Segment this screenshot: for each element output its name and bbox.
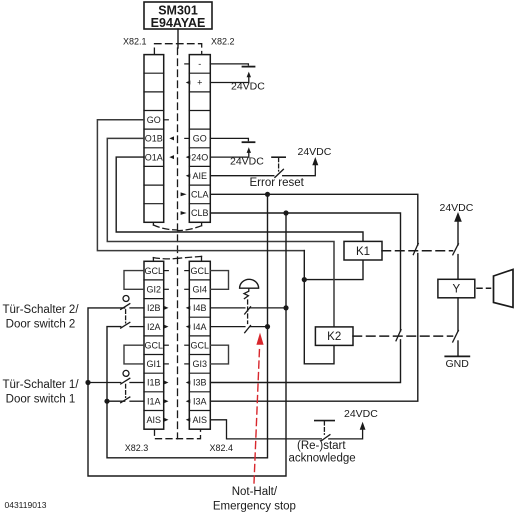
wire GO (X82.2) pin to 0V bar	[210, 138, 248, 140]
restart pushbutton: cap bar	[315, 420, 334, 422]
svg-text:GI4: GI4	[193, 285, 208, 295]
wire K2 muting contact to GND	[457, 341, 459, 356]
wire 24VDC to K1 muting contact	[457, 221, 459, 245]
wire I1B via door switch 1	[88, 382, 144, 384]
pin direction arrow I1A (in, right)	[164, 399, 169, 403]
svg-text:K2: K2	[327, 331, 341, 343]
wire I1A via door switch 1	[107, 400, 144, 402]
door switch 2: contact blade I2B	[121, 304, 130, 310]
svg-text:X82.2: X82.2	[211, 37, 235, 47]
pin direction arrow CLB (out, right)	[181, 211, 187, 215]
svg-text:GI2: GI2	[147, 285, 162, 295]
pin direction arrow + (in, left)	[186, 81, 191, 85]
svg-text:24VDC: 24VDC	[440, 202, 474, 214]
label Not-Halt / Emergency stop	[213, 486, 296, 512]
pin direction arrow AIS X82.4 (in, left)	[186, 418, 191, 422]
pin direction arrow I2B (in, right)	[164, 306, 169, 310]
svg-text:Tür-Schalter 1/: Tür-Schalter 1/	[2, 379, 79, 391]
24VDC arrow (error reset)	[312, 157, 318, 165]
terminal strip X82.1	[144, 55, 168, 223]
wire I2B segment after door switch 2	[130, 307, 144, 309]
wire GO chain down to relay coil returns	[304, 251, 334, 364]
svg-text:AIS: AIS	[147, 415, 162, 425]
wire O1A to K1 coil	[116, 157, 363, 241]
wire SM301 box to module boundary	[177, 29, 179, 48]
pin direction arrow I3A (in, left)	[186, 399, 191, 403]
terminal strip X82.2	[185, 55, 211, 223]
module boundary dashed top bracket	[154, 44, 201, 55]
svg-text:I2B: I2B	[147, 303, 161, 313]
svg-text:GCL: GCL	[145, 340, 164, 350]
wire I2A segment after door switch 2	[130, 326, 144, 328]
svg-text:I3A: I3A	[193, 396, 207, 406]
wire O1B to K2 coil	[107, 138, 334, 327]
door switch 2: gang link dashed	[125, 310, 127, 323]
svg-text:24VDC: 24VDC	[230, 156, 264, 168]
module label box U1 SM301 / E94AYAE	[144, 2, 212, 30]
K2 checking contact blade (CLB line)	[396, 330, 401, 341]
K2 muting contact blade	[453, 330, 459, 342]
label Tuer-Schalter 2 / Door switch 2	[2, 304, 79, 330]
wire I4B from emergency stop contact	[210, 307, 286, 309]
svg-text:GI1: GI1	[147, 359, 162, 369]
svg-text:24VDC: 24VDC	[298, 146, 332, 158]
jumper GCL-GI2 (X82.3 left)	[124, 271, 144, 290]
pin direction arrow O1A (out, left)	[169, 155, 174, 159]
svg-text:Not-Halt/: Not-Halt/	[232, 486, 278, 498]
svg-text:-: -	[198, 59, 201, 69]
svg-text:GI3: GI3	[193, 359, 208, 369]
wire I3A from K1 checking contact	[210, 254, 417, 402]
svg-text:I3B: I3B	[193, 378, 207, 388]
wire "+" pin to 24VDC arrow	[210, 77, 249, 83]
wire error reset to 24VDC arrow	[283, 165, 316, 176]
wire AIS (X82.4) to restart acknowledge contact	[210, 420, 321, 439]
svg-text:GCL: GCL	[191, 266, 210, 276]
pushbutton error reset: actuator dashed stem	[278, 158, 280, 171]
svg-text:acknowledge: acknowledge	[289, 453, 356, 465]
svg-text:+: +	[197, 78, 202, 88]
pin direction arrow I4B (in, left)	[186, 306, 191, 310]
terminal strip X82.4	[185, 261, 211, 429]
K1 mechanical linkage (dashed)	[382, 250, 453, 252]
24VDC arrow (muting supply)	[454, 212, 462, 222]
svg-text:X82.1: X82.1	[123, 37, 147, 47]
svg-text:Tür-Schalter 2/: Tür-Schalter 2/	[2, 304, 79, 316]
svg-text:CLB: CLB	[191, 208, 209, 218]
wire GO (X82.1) feed loop	[97, 120, 304, 251]
svg-text:O1B: O1B	[145, 134, 163, 144]
svg-text:I4A: I4A	[193, 322, 207, 332]
wire CLB to K2 feedback contact	[210, 213, 400, 331]
0V potential bar (GO supply)	[243, 141, 255, 143]
restart pushbutton: contact blade	[321, 435, 330, 441]
emergency stop contact blade I4A	[245, 326, 251, 333]
wire 24O pin to 24VDC arrow	[210, 153, 249, 158]
svg-text:(Re-)start: (Re-)start	[297, 440, 346, 452]
module boundary dashed bottom bracket	[155, 429, 201, 439]
door switch 2: contact blade I2A	[121, 322, 130, 328]
svg-text:043119013: 043119013	[5, 500, 47, 510]
emergency stop button: actuator dashed link	[247, 300, 249, 324]
K1 muting contact blade	[453, 244, 459, 255]
module boundary stubs and wiggles between connector groups	[153, 222, 201, 261]
relay coil K1	[344, 241, 382, 260]
jumper GCL-GI1 (X82.3 left)	[124, 345, 144, 364]
svg-text:AIS: AIS	[193, 415, 208, 425]
wire CLB chain down across bottom and up to door switch 2 (I2B)	[88, 213, 286, 476]
wire AIE input (error reset)	[210, 175, 273, 177]
svg-text:O1A: O1A	[145, 152, 163, 162]
label (Re-)start acknowledge	[289, 440, 356, 465]
junction I1B tap	[85, 380, 90, 385]
svg-text:X82.4: X82.4	[210, 443, 234, 453]
24VDC arrow (24O pin)	[247, 147, 251, 153]
wire K1 muting contact to Y	[457, 255, 459, 280]
door switch 1: contact blade I1B	[121, 378, 130, 384]
svg-text:Door switch 2: Door switch 2	[6, 318, 76, 330]
24VDC arrow (restart)	[360, 422, 366, 430]
pin direction arrow 24O (in, left)	[186, 155, 191, 159]
door switch 1: circle head	[123, 370, 129, 376]
24VDC arrow (+ pin)	[247, 72, 251, 78]
wire CLA to K1 feedback contact	[210, 194, 417, 245]
junction I4A tap	[265, 324, 270, 329]
pin direction arrow I2A (in, right)	[164, 325, 169, 329]
svg-text:E94AYAE: E94AYAE	[151, 16, 206, 30]
svg-text:24VDC: 24VDC	[231, 81, 265, 93]
K2 mechanical linkage (dashed)	[353, 335, 453, 337]
terminal strip X82.3	[144, 261, 168, 429]
emergency stop pointer: red dashed arrow	[254, 333, 264, 483]
svg-text:GO: GO	[193, 134, 207, 144]
junction GO / K1 return	[302, 277, 307, 282]
wire restart contact to 24VDC arrow	[329, 430, 363, 439]
pin direction arrow AIE (in, left)	[186, 174, 191, 178]
svg-text:GO: GO	[147, 115, 161, 125]
door switch 1: gang link dashed	[125, 384, 127, 397]
svg-text:K1: K1	[356, 246, 370, 258]
svg-text:AIE: AIE	[193, 171, 208, 181]
module boundary dashed centerline	[177, 48, 179, 439]
door switch 2: circle head	[123, 296, 129, 302]
pin direction arrow I3B (in, left)	[186, 381, 191, 385]
emergency stop button: stem and latch	[244, 288, 249, 298]
wire K1 coil return	[304, 260, 363, 280]
svg-text:I2A: I2A	[147, 322, 161, 332]
label Tuer-Schalter 1 / Door switch 1	[2, 379, 79, 405]
wire CLA chain down across bottom and up to door switch 2 (I2A)	[107, 194, 268, 458]
dashed link Y to horn	[477, 287, 491, 289]
junction I1A tap	[104, 399, 109, 404]
K1 checking contact blade (CLA line)	[413, 243, 418, 254]
pin direction arrow CLA (out, right)	[181, 192, 187, 196]
door switch 1: contact blade I1A	[121, 397, 130, 403]
svg-text:24VDC: 24VDC	[344, 408, 378, 420]
svg-text:CLA: CLA	[191, 190, 209, 200]
svg-text:Y: Y	[452, 284, 460, 296]
restart pushbutton: actuator dashed stem	[323, 421, 325, 434]
muting output device Y	[438, 279, 475, 298]
wire "-" pin to 0V bar	[210, 64, 248, 65]
wire I4A from emergency stop contact	[210, 326, 267, 328]
jumper GCL-GI3 (X82.4 right)	[210, 345, 228, 364]
wire Y to K2 muting contact	[457, 298, 459, 331]
junction CLB branch	[283, 210, 288, 215]
0V potential bar (upper supply)	[243, 66, 255, 68]
svg-text:GCL: GCL	[145, 266, 164, 276]
emergency stop contact blade I4B	[245, 307, 251, 314]
svg-text:Error reset: Error reset	[250, 177, 305, 189]
pushbutton error reset: contact blade	[275, 169, 284, 177]
junction CLA branch	[265, 192, 270, 197]
svg-text:GCL: GCL	[191, 340, 210, 350]
jumper GCL-GI4 (X82.4 right)	[210, 271, 228, 290]
GND symbol bar	[445, 355, 469, 357]
svg-text:Door switch 1: Door switch 1	[6, 393, 76, 405]
svg-text:GND: GND	[446, 358, 470, 370]
pin direction arrow O1B (out, left)	[169, 136, 174, 140]
pin direction arrow AIS X82.3 (in, right)	[164, 418, 169, 422]
junction I4B tap	[283, 305, 288, 310]
svg-text:I4B: I4B	[193, 303, 207, 313]
relay coil K2	[315, 327, 353, 346]
svg-text:24O: 24O	[191, 152, 208, 162]
wire I3B from K2 checking contact	[210, 340, 400, 383]
emergency stop button: mushroom head	[240, 279, 259, 288]
svg-text:X82.3: X82.3	[125, 443, 149, 453]
pin direction arrow I1B (in, right)	[164, 381, 169, 385]
pushbutton error reset: cap bar	[272, 156, 285, 158]
svg-text:Emergency stop: Emergency stop	[213, 500, 296, 512]
svg-text:I1B: I1B	[147, 378, 161, 388]
svg-text:I1A: I1A	[147, 396, 161, 406]
horn / sounder symbol	[494, 269, 514, 307]
pin direction arrow I4A (in, left)	[186, 325, 191, 329]
